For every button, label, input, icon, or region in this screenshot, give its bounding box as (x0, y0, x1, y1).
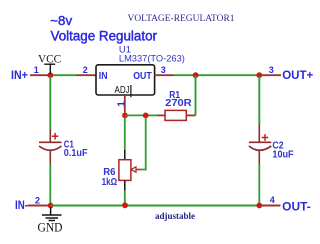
ground symbol (42, 207, 62, 220)
lead R6 bottom (black) (124, 180, 126, 191)
svg-text:270R: 270R (165, 98, 192, 109)
svg-text:GND: GND (38, 221, 63, 235)
cursor bar after ADJ (130, 85, 132, 97)
capacitor C1 (39, 130, 62, 165)
junction node VCC (47, 72, 53, 78)
op-amp U1 body (96, 65, 155, 95)
power symbol VCC (44, 64, 55, 73)
svg-text:IN+: IN+ (11, 70, 28, 82)
lead R1 left (red) (157, 114, 165, 116)
wire IN+ stub (red) (30, 74, 48, 76)
wire R6 bottom to GND net (green) (124, 191, 126, 205)
junction node C2-OUT (256, 72, 262, 78)
svg-text:IN-: IN- (15, 200, 28, 212)
wire OUT- stub (red) (259, 205, 280, 207)
svg-text:OUT: OUT (133, 71, 152, 82)
wire ADJ to R6 top (green) (124, 117, 126, 151)
svg-text:VOLTAGE-REGULATOR1: VOLTAGE-REGULATOR1 (128, 14, 235, 24)
wire C2 to GND net (green) (258, 164, 260, 204)
wire OUT to C2 (green) (258, 76, 260, 125)
wire OUT net top (green) (174, 74, 261, 76)
pin stub U1 OUT (red) (155, 74, 175, 76)
svg-text:1: 1 (117, 101, 128, 107)
junction node R6-GND (122, 202, 128, 208)
wire VCC node to U1 IN (green) (50, 74, 77, 76)
polarity + of C1 (52, 133, 59, 140)
svg-text:1: 1 (34, 65, 39, 75)
svg-text:2: 2 (35, 196, 40, 206)
svg-text:2: 2 (83, 65, 88, 75)
svg-text:1kΩ: 1kΩ (102, 177, 118, 188)
svg-text:adjustable: adjustable (155, 211, 195, 221)
wire R1 to OUT net (green) (195, 76, 197, 116)
svg-text:~8v: ~8v (50, 13, 72, 28)
wire ADJ net (green) (125, 114, 157, 116)
wire OUT+ stub (red) (259, 74, 281, 76)
wiper arrow R6 (131, 167, 141, 172)
svg-text:OUT-: OUT- (282, 202, 311, 214)
wire wiper to ADJ net (green) (141, 117, 146, 170)
polarity + of C2 (262, 134, 269, 141)
svg-text:4: 4 (270, 195, 275, 205)
svg-text:3: 3 (269, 65, 274, 75)
wire GND net bottom (green) (51, 205, 260, 207)
pin stub U1 IN (red) (77, 74, 97, 76)
svg-text:VCC: VCC (38, 54, 62, 66)
svg-text:LM337(TO-263): LM337(TO-263) (119, 53, 185, 64)
lead R6 top (black) (124, 150, 126, 160)
svg-text:ADJ: ADJ (115, 84, 130, 96)
svg-text:Voltage Regulator: Voltage Regulator (51, 29, 158, 44)
wire C1 to GND net (green) (49, 164, 51, 204)
potentiometer R6 body (119, 160, 131, 181)
svg-text:OUT+: OUT+ (282, 70, 313, 82)
junction node R1-OUT (193, 72, 199, 78)
resistor R1 (165, 110, 186, 120)
junction node ADJ (122, 113, 128, 119)
svg-text:3: 3 (161, 65, 166, 75)
junction node wiper (143, 113, 149, 119)
wire VCC to C1 (green) (49, 76, 51, 130)
wire IN- stub (red) (28, 205, 48, 207)
junction node GND-left (48, 203, 54, 209)
svg-text:0.1uF: 0.1uF (64, 148, 88, 159)
pin stub U1 ADJ (red) (124, 95, 126, 113)
junction node OUT- (256, 203, 262, 209)
lead R1 right (red) (186, 114, 195, 116)
svg-text:10uF: 10uF (272, 149, 293, 160)
svg-text:IN: IN (99, 71, 108, 82)
capacitor C2 (249, 125, 271, 165)
